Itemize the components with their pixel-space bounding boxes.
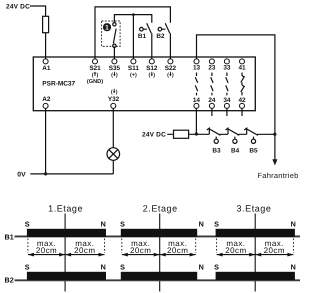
svg-text:S: S xyxy=(120,263,125,272)
svg-text:(GND): (GND) xyxy=(87,78,103,85)
svg-text:): ) xyxy=(172,72,174,78)
svg-text:N: N xyxy=(101,263,106,272)
svg-text:B3: B3 xyxy=(212,148,221,155)
svg-text:S: S xyxy=(214,263,219,272)
svg-text:42: 42 xyxy=(238,97,246,104)
svg-text:3.Etage: 3.Etage xyxy=(237,204,272,214)
svg-text:A2: A2 xyxy=(42,96,51,103)
svg-text:41: 41 xyxy=(238,65,246,72)
svg-text:B5: B5 xyxy=(249,148,258,155)
svg-text:33: 33 xyxy=(223,65,231,72)
svg-text:B4: B4 xyxy=(231,148,240,155)
svg-text:(: ( xyxy=(149,72,151,78)
svg-text:A1: A1 xyxy=(42,65,51,72)
svg-text:Y32: Y32 xyxy=(108,96,120,103)
svg-text:): ) xyxy=(116,89,118,95)
svg-text:N: N xyxy=(291,263,296,272)
svg-text:S35: S35 xyxy=(109,65,121,72)
svg-text:34: 34 xyxy=(223,97,231,104)
svg-text:20cm: 20cm xyxy=(36,246,57,255)
svg-text:N: N xyxy=(199,263,204,272)
svg-text:14: 14 xyxy=(193,97,201,104)
svg-text:20cm: 20cm xyxy=(225,246,246,255)
svg-text:20cm: 20cm xyxy=(167,246,188,255)
svg-text:N: N xyxy=(291,219,296,228)
svg-text:): ) xyxy=(116,72,118,78)
svg-text:(: ( xyxy=(92,72,94,78)
svg-text:20cm: 20cm xyxy=(74,246,95,255)
svg-text:0V: 0V xyxy=(17,171,26,178)
svg-text:24: 24 xyxy=(208,97,216,104)
svg-text:1.Etage: 1.Etage xyxy=(48,204,83,214)
svg-text:PSR-MC37: PSR-MC37 xyxy=(42,81,75,88)
svg-text:(: ( xyxy=(167,72,169,78)
svg-text:2.Etage: 2.Etage xyxy=(143,204,178,214)
svg-text:S12: S12 xyxy=(146,65,158,72)
svg-text:S: S xyxy=(25,263,30,272)
svg-text:23: 23 xyxy=(208,65,216,72)
svg-text:(: ( xyxy=(111,89,113,95)
svg-text:): ) xyxy=(153,72,155,78)
svg-text:S21: S21 xyxy=(89,65,101,72)
svg-text:Fahrantrieb: Fahrantrieb xyxy=(257,171,298,180)
svg-text:20cm: 20cm xyxy=(130,246,151,255)
svg-text:S22: S22 xyxy=(165,65,177,72)
svg-text:B1: B1 xyxy=(5,233,14,242)
svg-text:(: ( xyxy=(111,72,113,78)
svg-text:B2: B2 xyxy=(5,276,14,285)
svg-text:): ) xyxy=(97,72,99,78)
svg-text:S: S xyxy=(120,219,125,228)
svg-text:(+): (+) xyxy=(130,72,137,78)
svg-text:1: 1 xyxy=(105,25,109,32)
svg-text:13: 13 xyxy=(193,65,201,72)
svg-text:20cm: 20cm xyxy=(264,246,285,255)
svg-text:24V DC: 24V DC xyxy=(142,132,166,139)
svg-text:N: N xyxy=(199,219,204,228)
svg-text:N: N xyxy=(101,219,106,228)
svg-text:B2: B2 xyxy=(156,33,165,40)
svg-text:24V DC: 24V DC xyxy=(6,4,30,11)
svg-text:S: S xyxy=(214,219,219,228)
svg-text:S11: S11 xyxy=(128,65,139,72)
svg-text:B1: B1 xyxy=(138,33,147,40)
svg-text:S: S xyxy=(25,219,30,228)
